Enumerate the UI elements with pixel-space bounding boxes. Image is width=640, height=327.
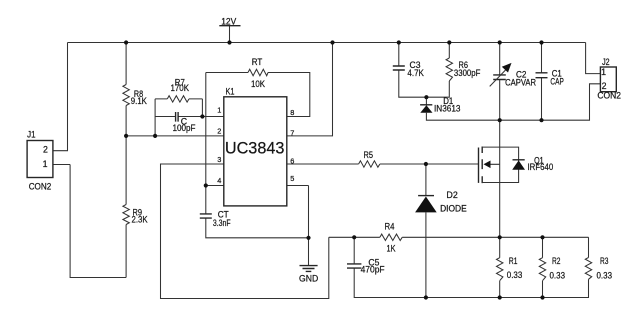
svg-text:CON2: CON2 (29, 181, 52, 191)
svg-text:D2: D2 (446, 190, 458, 200)
svg-text:RT: RT (252, 57, 263, 67)
svg-text:0.33: 0.33 (507, 270, 523, 280)
svg-text:4: 4 (217, 176, 221, 185)
svg-text:100pF: 100pF (173, 123, 197, 133)
svg-text:3: 3 (217, 155, 221, 164)
svg-text:R4: R4 (385, 222, 395, 232)
svg-text:3.3nF: 3.3nF (213, 218, 231, 228)
svg-text:IN3613: IN3613 (434, 104, 461, 114)
svg-text:R2: R2 (552, 256, 561, 266)
svg-text:9.1K: 9.1K (131, 96, 147, 106)
svg-text:470pF: 470pF (361, 264, 386, 274)
svg-text:IRF640: IRF640 (528, 162, 554, 172)
svg-text:1: 1 (43, 159, 48, 169)
svg-text:CON2: CON2 (597, 91, 621, 101)
svg-text:R5: R5 (364, 150, 374, 160)
svg-text:DIODE: DIODE (440, 204, 467, 214)
svg-text:6: 6 (290, 156, 294, 165)
svg-text:1: 1 (601, 67, 606, 77)
svg-text:7: 7 (290, 128, 294, 137)
svg-text:4.7K: 4.7K (407, 68, 424, 78)
svg-text:8: 8 (290, 108, 294, 117)
svg-text:0.33: 0.33 (550, 271, 566, 281)
svg-text:12V: 12V (221, 16, 236, 26)
svg-text:1K: 1K (387, 244, 396, 254)
svg-text:1: 1 (217, 106, 221, 115)
svg-text:2: 2 (217, 127, 221, 136)
svg-text:CAP: CAP (550, 76, 563, 86)
svg-text:2: 2 (43, 145, 48, 155)
svg-text:UC3843: UC3843 (225, 140, 285, 158)
svg-text:0.33: 0.33 (597, 271, 613, 281)
svg-text:CAPVAR: CAPVAR (505, 78, 536, 88)
svg-text:K1: K1 (226, 87, 235, 97)
svg-text:2.3K: 2.3K (132, 215, 148, 225)
svg-text:10K: 10K (251, 79, 265, 89)
svg-text:5: 5 (290, 174, 294, 183)
svg-text:3300pF: 3300pF (454, 68, 481, 78)
svg-text:GND: GND (299, 273, 318, 283)
svg-text:R1: R1 (509, 256, 518, 266)
svg-text:J2: J2 (602, 57, 610, 67)
svg-text:170K: 170K (171, 83, 190, 93)
svg-text:J1: J1 (27, 129, 35, 139)
svg-text:R3: R3 (600, 256, 609, 266)
svg-text:2: 2 (602, 81, 607, 91)
